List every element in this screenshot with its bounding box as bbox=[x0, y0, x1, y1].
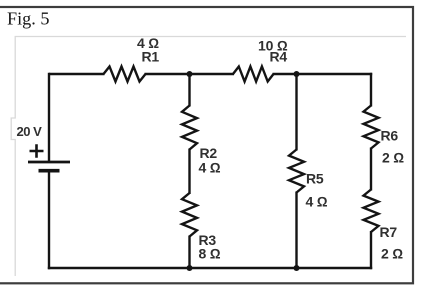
resistor R4 bbox=[233, 67, 274, 82]
resistor R3 bbox=[182, 193, 197, 237]
battery V1: short plate bbox=[39, 169, 60, 173]
svg-text:Fig. 5: Fig. 5 bbox=[7, 8, 49, 28]
wire: R3 branch bottom bbox=[188, 236, 190, 269]
wire: left rail lower bbox=[48, 171, 50, 270]
node D junction (R5 bottom) bbox=[294, 265, 300, 271]
svg-text:R7: R7 bbox=[380, 224, 398, 240]
resistor R1 bbox=[104, 67, 146, 82]
svg-text:4 Ω: 4 Ω bbox=[199, 159, 221, 175]
resistor R5 bbox=[289, 150, 304, 193]
svg-text:4 Ω: 4 Ω bbox=[306, 194, 328, 210]
wire: R2 branch top bbox=[188, 74, 190, 107]
wire: right rail top bbox=[370, 73, 372, 107]
wire: bottom rail bbox=[48, 267, 372, 269]
svg-text:R1: R1 bbox=[142, 49, 160, 65]
wire: left rail upper bbox=[48, 73, 50, 162]
resistor R2 bbox=[182, 106, 197, 150]
wire: R2-R3 middle segment bbox=[188, 149, 190, 195]
node C junction (R3 bottom) bbox=[187, 265, 193, 271]
resistor R7 bbox=[364, 190, 379, 233]
svg-text:2 Ω: 2 Ω bbox=[382, 150, 404, 166]
wire: top rail left segment bbox=[49, 73, 105, 75]
battery V1: plus sign bbox=[30, 144, 44, 157]
battery V1 20 V: long plate bbox=[28, 161, 70, 164]
wire: right rail bottom bbox=[370, 231, 372, 269]
wire: R5 branch bottom bbox=[295, 192, 297, 269]
wire: R6-R7 middle segment bbox=[370, 148, 372, 191]
svg-text:R4: R4 bbox=[270, 49, 288, 65]
wire: R5 branch top bbox=[295, 74, 297, 151]
node A junction (R2 top) bbox=[187, 71, 193, 77]
wire: top rail right segment bbox=[273, 73, 373, 75]
svg-text:8 Ω: 8 Ω bbox=[199, 246, 221, 262]
svg-text:2 Ω: 2 Ω bbox=[381, 246, 403, 262]
svg-text:20 V: 20 V bbox=[17, 124, 43, 139]
resistor R6 bbox=[364, 106, 379, 149]
svg-text:R6: R6 bbox=[381, 127, 399, 143]
wire: top rail between R1 and R4 bbox=[145, 73, 235, 75]
svg-text:R5: R5 bbox=[306, 171, 324, 187]
node B junction (R5 top) bbox=[294, 71, 300, 77]
